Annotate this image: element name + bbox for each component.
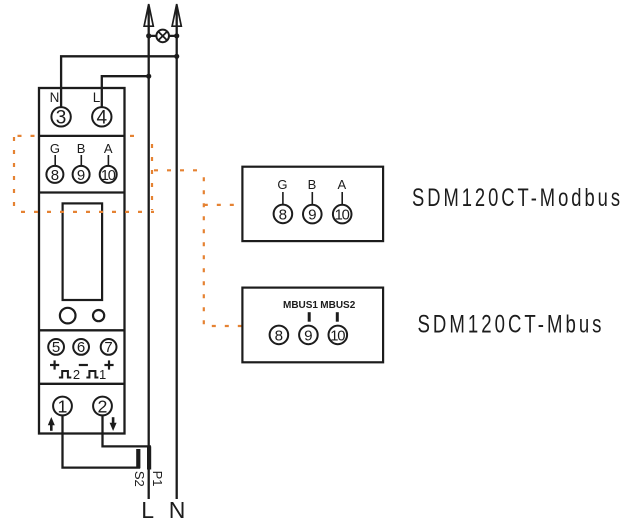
pin stub G [54, 155, 56, 166]
button large [60, 308, 76, 324]
pin stub MBUS2 [336, 312, 339, 322]
SDM120CT-Modbus terminal box [242, 167, 383, 241]
pulse symbol 1 [86, 371, 98, 378]
LCD display [63, 203, 103, 300]
terminal 10 circle [100, 166, 117, 183]
wire into terminal 4 [101, 88, 103, 107]
CT bar P1 [147, 446, 151, 469]
pin stub G (Modbus box) [282, 192, 284, 205]
terminal 8 circle (Modbus box) [274, 205, 293, 224]
terminal 6 circle [73, 339, 89, 355]
wire into terminal 3 [60, 88, 62, 107]
svg-text:6: 6 [77, 339, 85, 356]
polarity minus [79, 364, 88, 366]
junction dot L-lamp [146, 33, 151, 38]
pin stub A [107, 155, 109, 166]
svg-text:8: 8 [51, 167, 59, 184]
svg-text:9: 9 [308, 207, 316, 224]
svg-text:9: 9 [77, 167, 85, 184]
terminal 4 circle [92, 107, 111, 126]
dashed link to Mbus box [204, 325, 242, 327]
pin stub B [80, 155, 82, 166]
svg-text:G: G [50, 141, 60, 156]
svg-text:2: 2 [73, 367, 80, 382]
pulse symbol 2 [59, 371, 71, 378]
lamp [156, 30, 169, 43]
svg-text:G: G [277, 177, 287, 192]
junction dot L branch [146, 74, 151, 79]
polarity plus left [50, 360, 59, 369]
meter divider 2 [39, 191, 125, 193]
svg-text:7: 7 [104, 339, 112, 356]
svg-text:B: B [77, 141, 86, 156]
svg-text:N: N [50, 90, 60, 105]
terminal 5 circle [48, 339, 64, 355]
terminal 9 circle [73, 166, 90, 183]
arrow in (terminal 1) [48, 417, 55, 431]
terminal 8 circle [46, 166, 63, 183]
svg-text:L: L [93, 90, 101, 105]
svg-text:L: L [141, 497, 154, 522]
terminal 1 circle [53, 397, 72, 416]
svg-text:A: A [337, 177, 346, 192]
svg-text:A: A [104, 141, 113, 156]
meter divider 3 [39, 329, 125, 331]
svg-text:8: 8 [275, 327, 283, 344]
button small [93, 310, 104, 321]
wire L to terminal 4 (horizontal+riser) [102, 76, 149, 107]
junction dot N branch [174, 54, 179, 59]
pin stub A (Modbus box) [341, 192, 343, 205]
wire terminal 2 to CT P1 [103, 415, 151, 446]
svg-text:9: 9 [304, 327, 312, 344]
svg-text:2: 2 [98, 396, 108, 416]
svg-text:4: 4 [97, 107, 108, 128]
svg-text:MBUS2: MBUS2 [320, 300, 355, 311]
svg-text:8: 8 [279, 206, 287, 223]
svg-text:B: B [308, 177, 317, 192]
svg-text:10: 10 [335, 208, 350, 224]
meter divider 1 [39, 135, 125, 137]
terminal 10 circle (Mbus box) [329, 326, 348, 345]
svg-text:SDM120CT-Mbus: SDM120CT-Mbus [418, 312, 605, 339]
pin stub MBUS1 [308, 312, 311, 322]
polarity plus right [104, 360, 113, 369]
svg-text:10: 10 [101, 168, 116, 184]
terminal 7 circle [101, 339, 117, 355]
terminal 8 circle (Mbus box) [270, 326, 289, 345]
terminal 9 circle (Mbus box) [299, 326, 318, 345]
svg-text:SDM120CT-Modbus: SDM120CT-Modbus [412, 185, 623, 212]
arrow head L supply [144, 4, 153, 26]
svg-text:N: N [169, 497, 186, 522]
terminal 2 circle [93, 397, 112, 416]
svg-text:MBUS1: MBUS1 [283, 300, 318, 311]
meter outline [39, 88, 125, 434]
svg-text:3: 3 [56, 107, 67, 128]
wire N vertical supply [176, 6, 178, 499]
wire N to terminal 3 (horizontal+riser) [61, 56, 177, 107]
dashed link to Modbus box [154, 170, 242, 326]
wire terminal 1 to CT S2 [63, 415, 141, 467]
arrow head N supply [172, 4, 181, 26]
SDM120CT-Mbus terminal box [242, 288, 383, 363]
arrow out (terminal 2) [110, 417, 117, 431]
svg-text:5: 5 [52, 339, 60, 356]
svg-text:1: 1 [99, 367, 106, 382]
meter divider 4 [39, 383, 125, 385]
wire lamp link [149, 35, 177, 37]
RS485 dashed callout box [14, 136, 154, 212]
terminal 3 circle [51, 107, 70, 126]
terminal 9 circle (Modbus box) [303, 205, 322, 224]
terminal 10 circle (Modbus box) [333, 205, 352, 224]
svg-text:S2: S2 [132, 471, 147, 487]
svg-text:10: 10 [330, 328, 345, 344]
svg-text:P1: P1 [150, 471, 165, 487]
junction dot N-lamp [174, 33, 179, 38]
svg-text:1: 1 [58, 396, 68, 416]
wire L vertical supply [148, 6, 150, 499]
pin stub B (Modbus box) [311, 192, 313, 205]
CT bar S2 [136, 449, 140, 468]
